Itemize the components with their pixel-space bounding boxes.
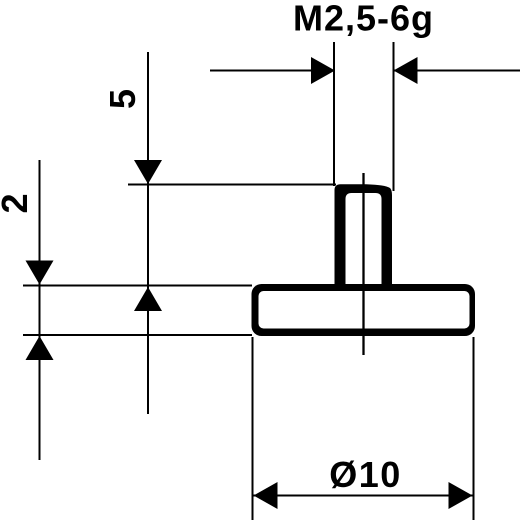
thread extension line right: [393, 42, 395, 191]
diameter right arrow: [449, 482, 473, 509]
disc top extension line: [23, 285, 252, 287]
svg-text:5: 5: [102, 89, 143, 109]
dimension 2 up arrow: [26, 336, 54, 360]
thread dimension arrow right-pointing: [311, 57, 335, 84]
dimension 5 line: [147, 52, 149, 414]
diameter extension line left: [252, 337, 254, 520]
threaded stud bore inner: [346, 193, 382, 285]
dimension 2 line: [39, 160, 41, 460]
thread dimension arrow left-pointing: [394, 57, 418, 84]
diameter dimension line: [254, 495, 473, 497]
disc bottom extension line: [23, 334, 252, 336]
diameter left arrow: [254, 482, 278, 509]
dimension 2 down arrow: [26, 261, 54, 285]
threaded stud body outer: [335, 184, 393, 290]
thread extension line left: [333, 42, 335, 186]
stud top extension line: [128, 184, 336, 186]
dimension 5 down arrow: [134, 160, 162, 184]
thread dimension line left segment: [210, 70, 335, 72]
svg-text:M2,5-6g: M2,5-6g: [293, 0, 434, 39]
svg-text:2: 2: [0, 193, 35, 213]
thread dimension line right segment: [394, 70, 520, 72]
dimension 5 up arrow: [134, 287, 162, 311]
disc body inner: [259, 291, 470, 329]
svg-text:Ø10: Ø10: [329, 454, 402, 495]
diameter extension line right: [473, 337, 475, 520]
disc body outer: [252, 284, 476, 336]
part centerline: [362, 173, 364, 355]
